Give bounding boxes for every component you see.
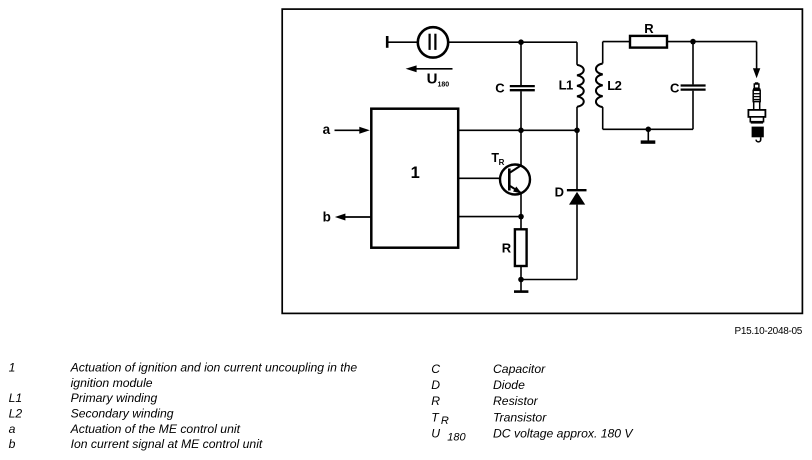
primary winding L1 — [577, 42, 584, 130]
wire module to emitter node — [458, 216, 521, 218]
node junction emitter row — [518, 214, 524, 220]
wire emitter node to resistor — [520, 217, 522, 230]
capacitor C2 (right) — [681, 42, 706, 130]
node junction capacitor C2 top — [690, 39, 696, 45]
output b arrow — [323, 210, 372, 225]
wire module to collector node row — [458, 129, 577, 131]
svg-text:1: 1 — [9, 361, 16, 375]
svg-text:U: U — [427, 71, 438, 88]
ground (left) — [514, 280, 528, 292]
label U180 — [427, 71, 450, 89]
svg-text:L1: L1 — [9, 391, 23, 405]
node junction ground row — [518, 277, 524, 283]
label L1 — [559, 77, 573, 92]
svg-text:Actuation of ignition and ion: Actuation of ignition and ion current un… — [70, 361, 358, 375]
ground (right) — [641, 129, 656, 143]
terminal of U180 supply — [386, 36, 389, 48]
wire terminal to voltage source — [388, 41, 418, 43]
svg-text:DC voltage approx. 180 V: DC voltage approx. 180 V — [493, 427, 634, 441]
svg-text:T: T — [431, 410, 440, 424]
label C (left capacitor) — [495, 80, 505, 95]
legend row b — [9, 437, 263, 451]
svg-text:1: 1 — [411, 164, 420, 182]
wire L2 bottom rail — [603, 128, 693, 130]
wire resistor to spark plug corner — [667, 41, 757, 43]
svg-text:Actuation of the ME control un: Actuation of the ME control unit — [70, 422, 241, 436]
secondary winding L2 — [596, 42, 603, 130]
legend row 1 — [9, 361, 358, 375]
svg-text:L1: L1 — [559, 77, 573, 92]
wire collector vertical — [520, 130, 522, 166]
svg-text:Resistor: Resistor — [493, 394, 539, 408]
svg-text:a: a — [9, 422, 16, 436]
spark plug — [748, 82, 765, 142]
voltage source U180 circle — [418, 27, 448, 57]
svg-text:R: R — [499, 158, 505, 167]
legend row L1 — [9, 391, 158, 405]
node junction collector row at x577 — [574, 128, 580, 134]
legend row R — [431, 394, 538, 408]
wire module to transistor base — [458, 177, 500, 179]
diode D — [567, 130, 587, 279]
svg-text:ignition module: ignition module — [71, 376, 153, 390]
svg-text:R: R — [502, 240, 512, 255]
legend row TR — [431, 410, 547, 427]
legend row U180 — [431, 427, 634, 444]
label D — [555, 185, 564, 200]
svg-text:Capacitor: Capacitor — [493, 362, 546, 376]
svg-text:D: D — [555, 185, 564, 200]
svg-text:C: C — [495, 80, 505, 95]
svg-text:180: 180 — [447, 431, 466, 443]
resistor R (emitter) — [515, 229, 527, 266]
input a arrow — [323, 122, 370, 137]
svg-text:Ion current signal at ME contr: Ion current signal at ME control unit — [71, 437, 263, 451]
svg-text:R: R — [644, 21, 654, 36]
wire ground node to diode bottom — [521, 279, 577, 281]
transistor TR — [500, 165, 530, 197]
svg-text:Primary winding: Primary winding — [71, 391, 158, 405]
svg-text:b: b — [9, 437, 16, 451]
label TR — [491, 151, 504, 167]
capacitor C1 (left) — [510, 42, 535, 130]
legend row C — [431, 362, 546, 376]
ignition module box 1 — [371, 109, 458, 248]
node junction ground right — [646, 127, 652, 133]
current direction arrow U180 — [406, 65, 453, 72]
svg-text:b: b — [323, 210, 331, 225]
legend row 1b — [71, 376, 153, 390]
wire to spark plug with arrow — [753, 42, 760, 79]
drawing frame (decorative) — [282, 9, 802, 313]
svg-text:D: D — [431, 378, 440, 392]
svg-text:Secondary winding: Secondary winding — [71, 407, 174, 421]
wire emitter vertical — [520, 193, 522, 217]
svg-text:180: 180 — [438, 82, 450, 89]
svg-text:P15.10-2048-05: P15.10-2048-05 — [735, 326, 803, 337]
svg-text:U: U — [431, 427, 440, 441]
wire voltage source to L1 top — [448, 41, 577, 43]
legend row a — [9, 422, 241, 436]
svg-text:C: C — [670, 81, 680, 96]
wire L2 top to resistor R — [603, 41, 630, 43]
resistor R (secondary) — [630, 36, 667, 48]
wire resistor to ground node — [520, 266, 522, 280]
svg-text:R: R — [441, 415, 449, 427]
svg-text:R: R — [431, 394, 440, 408]
node junction collector row at x521 — [518, 128, 524, 134]
label R (emitter resistor) — [502, 240, 512, 255]
label L2 — [607, 78, 621, 93]
label R (secondary resistor) — [644, 21, 654, 36]
legend row D — [431, 378, 525, 392]
svg-text:a: a — [323, 122, 331, 137]
svg-text:L2: L2 — [607, 78, 621, 93]
legend row L2 — [9, 407, 174, 421]
label C (right capacitor) — [670, 81, 680, 96]
svg-text:C: C — [431, 362, 440, 376]
svg-text:Diode: Diode — [493, 378, 525, 392]
node junction top at capacitor C — [518, 39, 524, 45]
svg-text:Transistor: Transistor — [493, 410, 547, 424]
svg-text:L2: L2 — [9, 407, 23, 421]
